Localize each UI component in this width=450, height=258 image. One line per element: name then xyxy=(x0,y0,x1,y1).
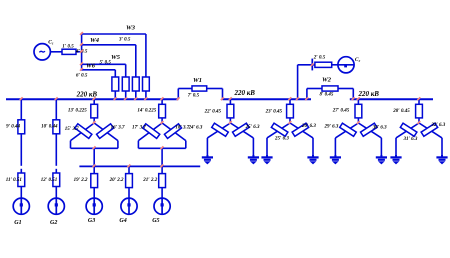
line W2 (bus tie) xyxy=(307,77,353,100)
wire to generator G2 xyxy=(55,187,57,199)
junction ticks on transformer nodes and lower bus xyxy=(93,121,421,167)
resistor 25&#8242; 6.3 (load B left) xyxy=(271,123,289,141)
resistor 8' 0.45 (W2) xyxy=(320,86,339,98)
load C right branch wire xyxy=(358,123,381,157)
load D left branch wire xyxy=(396,123,419,157)
load C left branch wire xyxy=(335,123,358,157)
svg-text:2′ 0.5: 2′ 0.5 xyxy=(313,55,326,60)
wire lower bus to resistor 21 xyxy=(161,166,163,173)
svg-text:27′ 0.45: 27′ 0.45 xyxy=(332,109,350,114)
load D right branch wire xyxy=(419,123,442,157)
svg-text:28′ 0.45: 28′ 0.45 xyxy=(392,109,410,114)
svg-text:W6: W6 xyxy=(86,63,96,70)
svg-text:220 кВ: 220 кВ xyxy=(76,90,98,98)
resistor 31&#8242; 6.3 (load D left) xyxy=(400,123,418,142)
svg-text:1′ 0.5: 1′ 0.5 xyxy=(62,45,74,50)
resistor 30&#8242; 6.3 (load C right) xyxy=(361,123,388,136)
bus 220kV section 1 xyxy=(6,90,178,99)
wire to generator G1 xyxy=(20,187,22,199)
wire bus to resistor 28& (load D) xyxy=(418,99,420,104)
resistor 7' 0.5 (W1) xyxy=(188,86,207,99)
svg-text:G5: G5 xyxy=(152,218,159,224)
svg-text:19′ 2.2: 19′ 2.2 xyxy=(74,178,88,183)
lower generator bus xyxy=(79,165,200,167)
svg-text:14′ 0.225: 14′ 0.225 xyxy=(137,109,156,114)
svg-text:25′ 6.3: 25′ 6.3 xyxy=(245,125,260,130)
wire bus to resistor 9 (G1 branch) xyxy=(20,99,22,120)
generator G1 xyxy=(13,198,29,226)
source C2 (system) xyxy=(338,57,361,73)
resistor 15&#8242; 3.7 (transformer 1 split winding left) xyxy=(65,124,92,139)
svg-text:32′ 6.3: 32′ 6.3 xyxy=(430,123,445,128)
bus 220kV section 3 xyxy=(350,90,433,99)
svg-text:W2: W2 xyxy=(322,77,332,84)
wire bus to resistor 27& (load C) xyxy=(357,99,359,104)
svg-text:C₂: C₂ xyxy=(355,57,361,63)
load B right branch wire xyxy=(290,123,313,157)
wire bus to resistor 10 (G2 branch) xyxy=(55,99,57,120)
ground (load D left) xyxy=(390,155,401,164)
svg-text:W3: W3 xyxy=(126,25,136,32)
svg-text:220 кВ: 220 кВ xyxy=(234,89,256,97)
wire to generator G5 xyxy=(161,188,163,199)
wire bus to transformer 2 HV xyxy=(161,99,163,104)
source C1 (system) xyxy=(34,40,54,60)
resistor 18&#8242; 3.7 (transformer 2 split winding right) xyxy=(164,124,189,139)
resistor 29&#8242; 6.3 (load C left) xyxy=(324,123,357,136)
svg-text:20′ 2.2: 20′ 2.2 xyxy=(109,178,124,183)
svg-text:W4: W4 xyxy=(90,37,100,44)
label 3&#8242 for W3 xyxy=(118,37,131,42)
svg-text:13′ 0.225: 13′ 0.225 xyxy=(68,109,87,114)
wire resistor 1 to feeder node xyxy=(76,51,82,53)
wire to generator G3 xyxy=(93,188,95,199)
resistor 21 2.2 xyxy=(142,174,165,188)
transformer 2 winding outline xyxy=(138,123,185,148)
load A right branch wire xyxy=(230,123,253,157)
ground (load D right) xyxy=(436,155,447,164)
ground (load A left) xyxy=(202,155,213,164)
svg-text:G4: G4 xyxy=(119,218,126,224)
wire C1 to resistor 1 xyxy=(50,51,62,53)
resistor 16&#8242; 3.7 (transformer 1 split winding right) xyxy=(97,124,125,139)
generator G3 xyxy=(86,198,102,224)
load A left branch wire xyxy=(207,123,230,157)
svg-text:3′ 0.5: 3′ 0.5 xyxy=(118,37,131,42)
resistor 1' 0.5 (C1 branch) xyxy=(62,45,76,55)
resistor 25&#8242; 6.3 (load A right) xyxy=(233,123,260,136)
wire load B to node xyxy=(289,118,291,123)
feeder vertical wire (C1 node) xyxy=(81,33,83,70)
resistor 27&#8242; 0.45 (load C HV) xyxy=(332,104,362,118)
transformer 1 winding outline xyxy=(71,123,118,148)
svg-text:30′ 6.3: 30′ 6.3 xyxy=(372,126,387,131)
label 5&#8242 for W5 xyxy=(100,61,112,66)
svg-text:W5: W5 xyxy=(111,54,121,61)
resistor 28&#8242; 0.45 (load D HV) xyxy=(392,104,422,118)
resistor 19 2.2 xyxy=(74,174,98,188)
resistor 22&#8242; 0.45 (load A HV) xyxy=(204,104,234,118)
resistor 13&#8242; 0.225 (transformer 1 HV) xyxy=(68,104,98,118)
resistor 10 0.44 xyxy=(41,120,60,134)
resistor 17&#8242; 3.7 (transformer 2 split winding left) xyxy=(132,124,160,139)
load B left branch wire xyxy=(267,123,290,157)
svg-text:G3: G3 xyxy=(88,218,95,224)
svg-text:10′ 0.44: 10′ 0.44 xyxy=(41,124,58,129)
svg-text:29′ 6.3: 29′ 6.3 xyxy=(324,125,339,130)
resistor 20 2.2 xyxy=(109,174,133,188)
resistor 26&#8242; 6.3 (load B right) xyxy=(292,123,316,136)
resistor 23&#8242; 0.45 (load B HV) xyxy=(265,104,294,118)
wire to generator G4 xyxy=(128,188,130,199)
wire middle G2 branch (with break) xyxy=(55,134,57,173)
line W3 horizontal wire xyxy=(82,25,146,34)
wire lower bus to resistor 20 xyxy=(128,166,130,173)
svg-text:7′ 0.5: 7′ 0.5 xyxy=(188,93,200,98)
ground (load C right) xyxy=(376,155,387,164)
svg-text:11′ 0.51: 11′ 0.51 xyxy=(6,178,22,183)
generator G5 xyxy=(152,198,170,224)
junction ticks on C1 feeder node xyxy=(80,32,83,71)
wire transformer 2 LV to lower bus xyxy=(161,148,163,166)
resistor 14&#8242; 0.225 (transformer 2 HV) xyxy=(137,104,165,118)
wire bus to transformer 1 HV xyxy=(93,99,95,104)
junction ticks on 220kV buses xyxy=(20,97,421,100)
svg-text:25′ 6.3: 25′ 6.3 xyxy=(274,137,289,142)
svg-text:C₁: C₁ xyxy=(48,40,54,46)
ground (load A right) xyxy=(248,155,259,164)
svg-text:17′ 3.7: 17′ 3.7 xyxy=(132,126,146,131)
label 4&#8242 for W4 xyxy=(75,50,88,55)
svg-text:G2: G2 xyxy=(50,220,57,226)
line W4 horizontal wire xyxy=(82,37,136,45)
svg-text:5′ 0.5: 5′ 0.5 xyxy=(100,61,112,66)
resistor 11 0.51 xyxy=(6,173,25,187)
wire lower bus to resistor 19 xyxy=(93,166,95,173)
svg-text:22′ 0.45: 22′ 0.45 xyxy=(204,109,222,114)
resistor W6 drop xyxy=(112,70,119,99)
wire riser to C2 branch xyxy=(298,65,315,99)
svg-text:16′ 3.7: 16′ 3.7 xyxy=(111,126,125,131)
wire resistor 2 to C2 xyxy=(332,64,338,66)
svg-text:220 кВ: 220 кВ xyxy=(358,90,380,98)
svg-text:12′ 0.51: 12′ 0.51 xyxy=(41,178,57,183)
wire middle G1 branch (with break) xyxy=(20,134,22,173)
resistor W3 drop xyxy=(143,34,150,99)
resistor W5 drop xyxy=(122,64,129,99)
ground (load C left) xyxy=(330,155,341,164)
resistor 24&#8242; 6.3 (load A left) xyxy=(188,123,229,136)
wire load A to node xyxy=(229,118,231,123)
svg-text:23′ 0.45: 23′ 0.45 xyxy=(265,110,283,115)
svg-text:21′ 2.2: 21′ 2.2 xyxy=(142,178,157,183)
wire load C to node xyxy=(357,118,359,123)
ground (load B right) xyxy=(307,155,318,164)
node tick C2 branch xyxy=(311,59,314,71)
line W6 horizontal wire xyxy=(82,63,116,70)
resistor 9& 0.44 xyxy=(6,120,25,134)
resistor 12 0.51 xyxy=(41,173,60,187)
resistor 32&#8242; 6.3 (load D right) xyxy=(421,123,446,137)
svg-text:9′ 0.44: 9′ 0.44 xyxy=(6,124,20,129)
line W1 (bus tie) xyxy=(178,77,222,99)
label 6&#8242 for W6 xyxy=(76,73,88,78)
wire bus to resistor 22& (load A) xyxy=(229,99,231,104)
svg-text:15′ 3.7: 15′ 3.7 xyxy=(65,127,79,132)
svg-text:G1: G1 xyxy=(14,220,21,226)
resistor W4 drop xyxy=(132,45,139,99)
svg-text:31′ 6.3: 31′ 6.3 xyxy=(403,137,418,142)
wire bus to resistor 23& (load B) xyxy=(289,99,291,104)
line W5 horizontal wire xyxy=(82,54,126,64)
generator G2 xyxy=(48,198,64,226)
svg-text:24′ 6.3: 24′ 6.3 xyxy=(188,126,203,131)
wire load D to node xyxy=(418,118,420,123)
svg-text:8′ 0.45: 8′ 0.45 xyxy=(320,93,334,98)
wire transformer 1 LV to lower bus xyxy=(93,148,95,166)
wire transformer 1 to node xyxy=(93,118,95,123)
ground (load B left) xyxy=(261,155,272,164)
resistor 2' 0.5 (C2 branch) xyxy=(313,55,332,67)
generator G4 xyxy=(119,198,137,224)
bus 220kV section 2 xyxy=(223,89,312,99)
svg-text:W1: W1 xyxy=(193,77,202,84)
svg-text:6′ 0.5: 6′ 0.5 xyxy=(76,73,88,78)
wire transformer 2 to node xyxy=(161,118,163,123)
svg-text:26′ 6.3: 26′ 6.3 xyxy=(301,124,316,129)
